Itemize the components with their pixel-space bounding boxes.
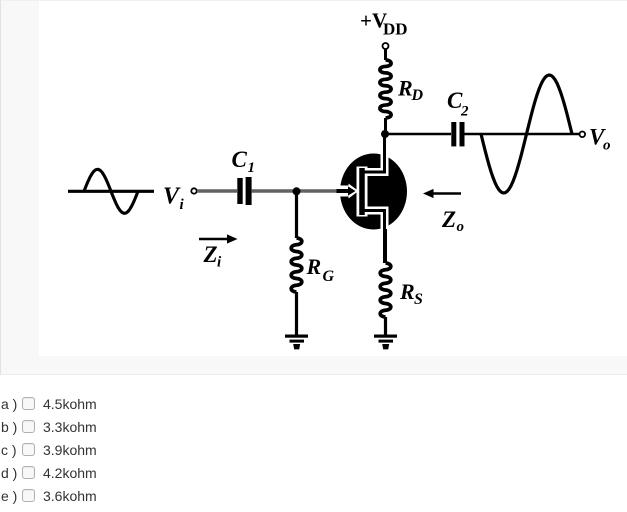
svg-text:i: i (180, 197, 185, 213)
svg-text:Z: Z (441, 207, 456, 232)
answer option a (0, 396, 627, 412)
wire VDD to RD (384, 50, 387, 61)
arrow Zi (199, 234, 238, 243)
terminal +VDD (383, 43, 389, 49)
svg-text:Z: Z (203, 242, 218, 267)
wire RS to ground (384, 317, 387, 335)
ground (under RG) (285, 335, 308, 350)
label RG (306, 254, 335, 285)
svg-text:S: S (414, 291, 423, 308)
circuit image white background (39, 1, 627, 356)
svg-text:o: o (457, 219, 465, 235)
ground (under RS) (374, 335, 397, 350)
wire gate node down to RG (295, 191, 298, 238)
transistor Q1 JFET body (340, 154, 407, 230)
input sine wave source (68, 169, 154, 213)
svg-text:C: C (232, 147, 248, 172)
resistor RS (380, 263, 391, 317)
label Vo (589, 125, 611, 154)
arrow Zo (423, 189, 461, 198)
resistor RD (380, 60, 391, 118)
svg-text:G: G (323, 268, 335, 285)
svg-text:R: R (397, 76, 413, 101)
wire RD to drain node (384, 118, 387, 134)
wire Vi to C1 (197, 189, 237, 192)
svg-text:o: o (603, 138, 611, 154)
node junction dot (gate node) (293, 187, 301, 195)
answer option d (0, 465, 627, 481)
svg-text:R: R (399, 279, 415, 304)
svg-text:V: V (163, 184, 181, 210)
label RS (399, 279, 423, 308)
answer option e (0, 488, 627, 504)
input terminal node Vi (191, 188, 196, 193)
svg-text:DD: DD (383, 20, 408, 39)
transistor Q1 JFET white casing (338, 151, 385, 232)
answer option b (0, 419, 627, 435)
resistor RG (291, 238, 302, 292)
label Zi (203, 242, 223, 271)
label Vi (163, 184, 185, 214)
transistor Q1 JFET black core (337, 134, 385, 263)
label C2 (447, 88, 469, 120)
svg-text:i: i (217, 255, 222, 271)
label C1 (232, 147, 256, 176)
svg-text:R: R (306, 254, 322, 279)
svg-text:2: 2 (460, 104, 469, 120)
svg-text:1: 1 (248, 160, 256, 176)
node drain junction dot (381, 130, 389, 138)
output sine wave (481, 75, 572, 193)
wire RG to ground (295, 292, 298, 335)
capacitor C2 (451, 122, 464, 146)
wire drain node to C2 (385, 133, 451, 135)
wire source to RS (384, 229, 387, 263)
answer option c (0, 442, 627, 458)
wire C2 to Vo (465, 133, 580, 135)
wire C1 to gate (252, 189, 341, 192)
label RD (397, 76, 424, 105)
terminal node Vo (580, 132, 586, 138)
quiz container background (0, 0, 627, 375)
svg-text:D: D (411, 87, 424, 104)
label Zo (441, 207, 464, 235)
capacitor C1 (237, 177, 251, 205)
label +VDD (360, 9, 408, 39)
